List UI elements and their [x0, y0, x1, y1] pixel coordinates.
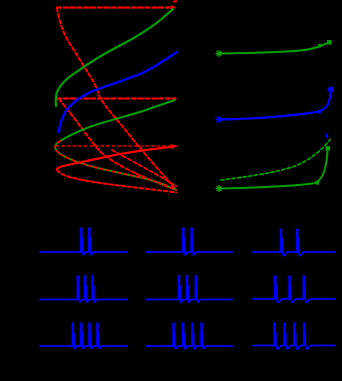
- lower thin dashed red horizontal line: [56, 145, 177, 147]
- R2 left asterisk marker: [216, 117, 222, 123]
- R2 end circle marker: [328, 87, 334, 93]
- spike trace row3 col3: [253, 323, 335, 349]
- R2 mid square marker: [318, 110, 321, 113]
- dashed red diagonal I: [59, 99, 176, 190]
- R3 end square marker: [326, 146, 331, 151]
- R3 blue tick top right: [326, 134, 329, 138]
- R1 mid square marker: [318, 44, 321, 47]
- R1 left asterisk marker: [216, 51, 222, 57]
- green curve C (middle fold curve): [55, 100, 176, 190]
- spike trace row2 col1: [40, 276, 127, 302]
- subplot R3 solid green curve: [219, 149, 328, 189]
- red dashed overlay on C lower branch: [55, 141, 176, 190]
- spike trace row1 col3: [253, 230, 335, 256]
- spike trace row1 col2: [146, 228, 232, 255]
- solid red curve G (upper branch of lower fold): [57, 147, 172, 170]
- top dashed red horizontal line: [57, 6, 171, 8]
- spike trace row2 col2: [146, 276, 232, 303]
- middle dashed red horizontal line: [57, 97, 176, 99]
- blue curve B: [59, 52, 177, 132]
- spike trace row3 col1: [40, 323, 127, 348]
- dashed red curve F (lowest fold arm): [57, 170, 176, 193]
- subplot R1 green curve: [219, 42, 330, 54]
- subplot R2 blue curve: [219, 90, 331, 120]
- R1 end square marker: [327, 40, 332, 45]
- spike trace row3 col2: [146, 323, 232, 349]
- R3 left asterisk marker: [216, 186, 222, 192]
- red tick top right: [174, 0, 177, 2]
- green curve A (upper S curve): [56, 9, 173, 106]
- spike trace row2 col3: [253, 276, 335, 302]
- dashed red diagonal K: [112, 150, 176, 186]
- R3 dashed green curve: [221, 140, 330, 181]
- dashed red curve D (from top-left to convergence point): [57, 8, 176, 190]
- R3 mid square marker: [316, 181, 320, 185]
- spike trace row1 col1: [40, 228, 127, 255]
